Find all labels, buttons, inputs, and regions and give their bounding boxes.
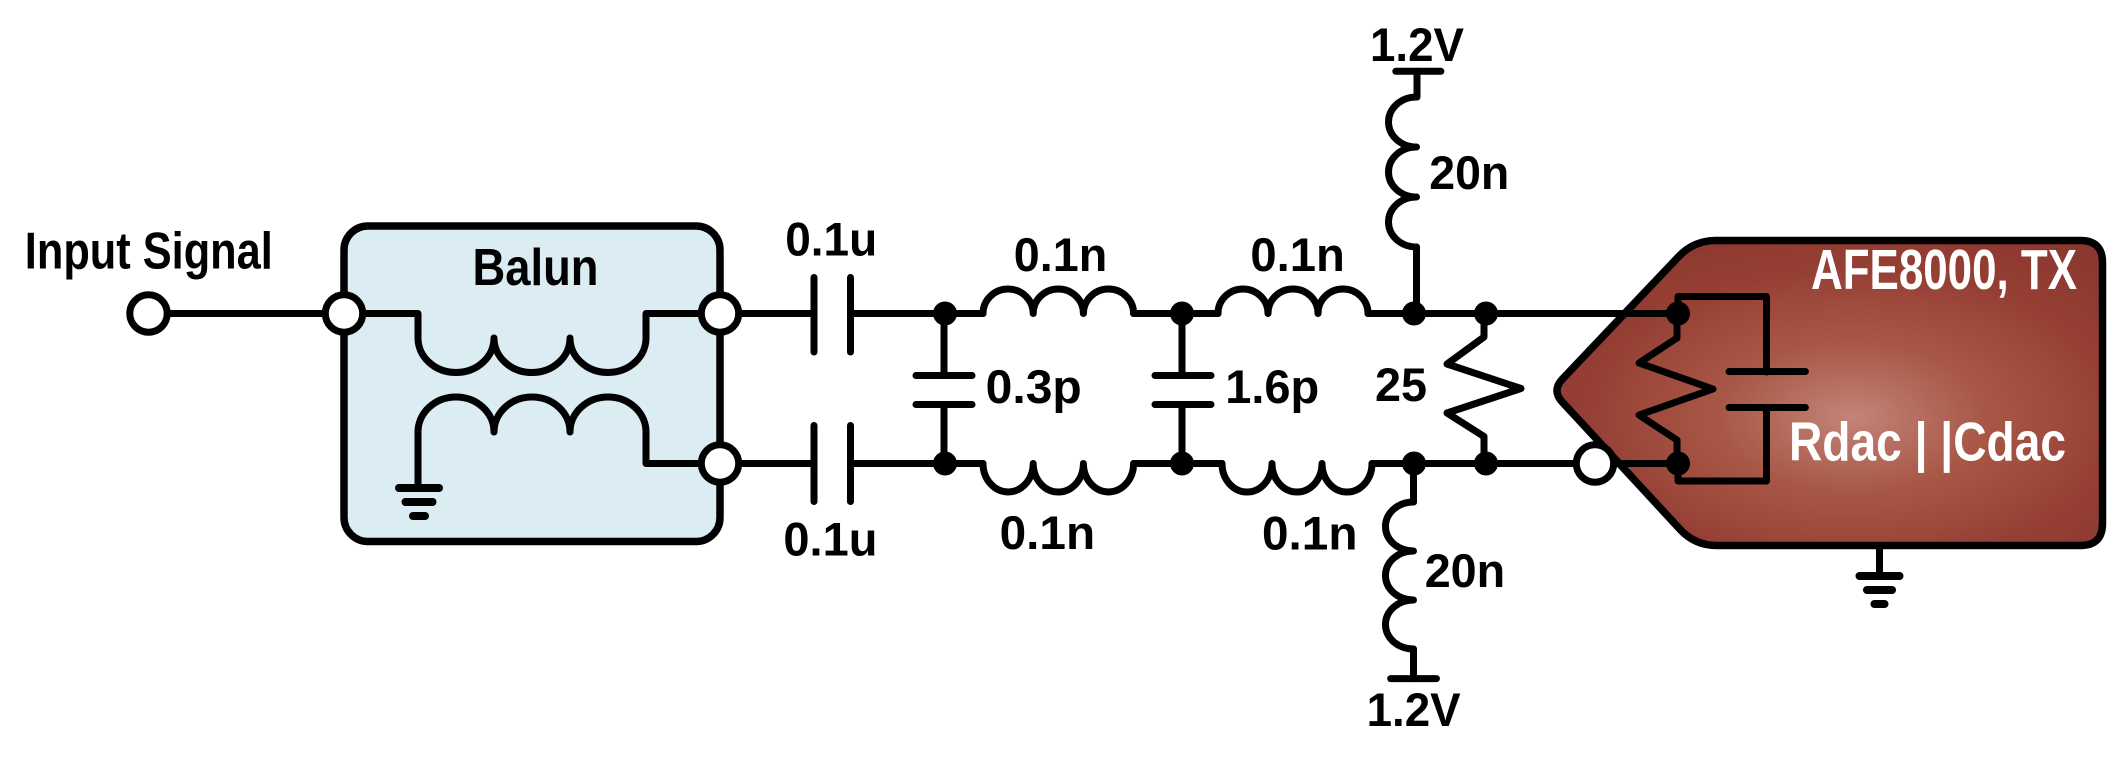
node C junction [933, 452, 957, 476]
node 20n top junction [1402, 302, 1426, 326]
ground balun [399, 484, 439, 492]
supply terminal 1.2V bottom [1391, 675, 1437, 682]
svg-text:Rdac | |Cdac: Rdac | |Cdac [1789, 411, 2066, 474]
svg-text:0.1n: 0.1n [1262, 507, 1358, 560]
svg-text:Balun: Balun [473, 239, 599, 297]
inductor L8 20n bottom [1410, 464, 1417, 503]
balun port out+ [701, 295, 738, 332]
ground chip [1876, 546, 1883, 574]
wire L5 to node D [1134, 460, 1222, 467]
node B junction [1170, 302, 1194, 326]
capacitor C3 0.3p [941, 314, 948, 373]
wire L4 to chip [1368, 310, 1678, 317]
wire C2 to node C [851, 460, 984, 467]
resistor Rdac [1639, 314, 1713, 464]
node Rdac bottom junction [1666, 452, 1690, 476]
wire L6 to chip [1372, 460, 1678, 467]
inductor L7 20n top [1414, 71, 1421, 97]
balun secondary winding L2 [418, 397, 720, 488]
inductor L4 0.1n top second [1218, 289, 1368, 314]
svg-text:1.6p: 1.6p [1225, 360, 1319, 413]
node 20n bottom junction [1402, 452, 1426, 476]
capacitor Cdac [1678, 297, 1767, 373]
balun port in [325, 295, 362, 332]
inductor L3 0.1n top [983, 289, 1134, 314]
balun block U1 [344, 226, 720, 542]
balun primary winding L1 [344, 314, 720, 373]
IC AFE8000 TX body [1557, 241, 2103, 546]
wire balun to C1 [720, 310, 814, 317]
node Rdac top junction [1666, 302, 1690, 326]
svg-text:0.3p: 0.3p [986, 360, 1082, 413]
wire input to balun [149, 310, 345, 317]
wire C1 to node A [851, 310, 984, 317]
node D junction [1170, 452, 1194, 476]
chip port in- [1576, 445, 1613, 482]
resistor R1 25 [1447, 314, 1521, 464]
input terminal [130, 295, 167, 332]
svg-text:25: 25 [1375, 358, 1427, 411]
svg-text:AFE8000, TX: AFE8000, TX [1811, 238, 2077, 302]
supply terminal 1.2V top [1396, 68, 1441, 75]
capacitor C2 0.1u plates [811, 426, 818, 502]
node A junction [933, 302, 957, 326]
svg-text:1.2V: 1.2V [1367, 683, 1462, 736]
balun port out- [701, 445, 738, 482]
svg-text:20n: 20n [1425, 544, 1506, 597]
svg-text:0.1u: 0.1u [785, 213, 877, 266]
inductor L5 0.1n bottom [983, 464, 1134, 493]
svg-text:0.1u: 0.1u [783, 513, 877, 566]
svg-text:0.1n: 0.1n [1250, 228, 1345, 281]
svg-text:Input Signal: Input Signal [25, 223, 273, 281]
wire L3 to node B [1134, 310, 1218, 317]
capacitor C4 1.6p [1179, 314, 1186, 373]
node R1 top junction [1474, 302, 1498, 326]
capacitor C1 0.1u plates [811, 278, 818, 353]
svg-text:20n: 20n [1429, 146, 1509, 199]
svg-text:0.1n: 0.1n [1014, 228, 1108, 281]
svg-text:1.2V: 1.2V [1370, 18, 1465, 71]
inductor L6 0.1n bottom second [1222, 464, 1372, 493]
wire balun to C2 [720, 460, 814, 467]
svg-text:0.1n: 0.1n [1000, 506, 1096, 559]
node R1 bottom junction [1474, 452, 1498, 476]
